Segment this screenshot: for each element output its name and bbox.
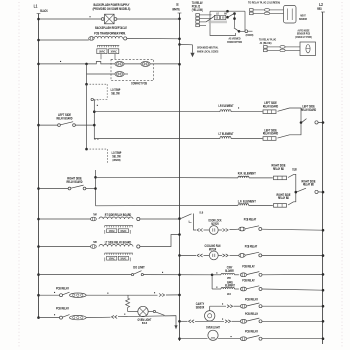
wire oven light relay rung — [37, 316, 40, 319]
element box LF — [274, 204, 287, 208]
wire backsplash rung right — [117, 18, 180, 20]
svg-text:N: N — [177, 2, 179, 7]
wire DO limit rung — [37, 273, 40, 276]
relay K5 contact conv blower — [240, 273, 246, 277]
motor M2 cooling fan — [209, 251, 218, 260]
wire lamp to relay — [218, 338, 240, 340]
svg-text:PCB RELAY: PCB RELAY — [242, 279, 255, 283]
svg-text:16VAC: 16VAC — [120, 229, 126, 233]
svg-text:SENSOR: SENSOR — [299, 17, 307, 21]
switch blade RR — [288, 174, 294, 177]
svg-text:TO RELAY PLUG J3 (GREEN): TO RELAY PLUG J3 (GREEN) — [248, 1, 280, 5]
wire LT element rung — [94, 138, 220, 140]
wire — [235, 274, 239, 276]
element LT heating coil — [220, 137, 231, 139]
wire drop to lamp DS3 — [86, 64, 88, 84]
wire through sensor bottom — [195, 320, 224, 322]
wire branch vertical — [211, 275, 213, 289]
wire RR element rung — [96, 176, 239, 179]
switch blade latch 2 — [228, 13, 234, 17]
relay K8 coil contact — [60, 316, 63, 319]
connector J3 pins — [250, 9, 254, 12]
wire to L2 — [318, 121, 323, 123]
wire latch top edge — [210, 10, 245, 12]
wire L1 drop continues — [86, 84, 88, 149]
connector J2 pins — [196, 14, 200, 17]
wire sensor rung — [210, 305, 226, 307]
svg-text:DLB: DLB — [292, 168, 297, 172]
switch blade LT — [278, 135, 290, 138]
label 16VAC T2 — [118, 229, 128, 233]
node relay junction left elements — [300, 121, 303, 124]
lamp DS4 oven light bulb — [138, 306, 148, 316]
wire to L2 bus — [318, 191, 323, 193]
connector arrows lock motor left — [197, 229, 199, 232]
label 16VAC secondary — [109, 49, 119, 54]
terminal circle — [91, 98, 93, 100]
element LF heating coil — [238, 204, 249, 206]
shaded band latch — [209, 21, 227, 24]
relay K7 coil contact — [60, 294, 63, 297]
svg-text:PCB RELAY: PCB RELAY — [245, 245, 258, 249]
element box RR — [274, 176, 287, 180]
connector arrows fan left — [197, 254, 199, 257]
switch blade latch 3 — [234, 28, 239, 32]
wire J1 leads — [267, 46, 279, 48]
relay K3 contact door lock — [239, 227, 245, 231]
svg-text:DLB: DLB — [200, 211, 204, 215]
transformer T3 primary terminal — [91, 245, 97, 249]
wire across N to branch — [143, 274, 212, 276]
svg-text:10VAC: 10VAC — [109, 229, 115, 233]
svg-text:LT ELEMENT: LT ELEMENT — [218, 132, 234, 136]
svg-text:LO: LO — [216, 12, 219, 16]
svg-text:(WARM): (WARM) — [113, 158, 121, 162]
wire dashed board edge top — [94, 99, 99, 101]
wire J2 pin leads — [199, 14, 211, 16]
wire rung under lamp — [118, 316, 176, 317]
connector arrows probe left — [189, 320, 191, 323]
wire between indicators — [124, 63, 141, 65]
svg-text:R.R. ELEMENT: R.R. ELEMENT — [238, 172, 257, 176]
secondary bracket marks T3 — [104, 258, 106, 262]
wire LF element rung — [96, 204, 239, 206]
wire collector vertical right elements — [95, 170, 97, 206]
svg-text:LR ELEMENT: LR ELEMENT — [218, 104, 234, 108]
wire T3 jog to N bus — [140, 235, 180, 247]
relay K6 contact bake — [240, 287, 246, 291]
wire LR to relay node — [290, 108, 302, 123]
wire to L2 bus — [262, 305, 323, 307]
wire mechanical link dashed — [87, 83, 108, 85]
element bake coil — [221, 288, 235, 290]
switch blade LF — [288, 202, 294, 205]
svg-text:(PROVIDED ON SOME MODELS): (PROVIDED ON SOME MODELS) — [93, 7, 131, 11]
wire RR to element box — [249, 177, 273, 179]
wire LT relay board rung — [37, 245, 40, 248]
wire — [204, 254, 210, 256]
label 16VAC T3 — [118, 256, 128, 260]
svg-text:L1: L1 — [34, 4, 38, 9]
wire to arrows — [86, 316, 110, 318]
wire to blower element — [212, 274, 221, 276]
switch blade LR — [278, 108, 290, 111]
svg-text:16VAC: 16VAC — [120, 256, 126, 260]
svg-text:DO LIMIT: DO LIMIT — [133, 265, 145, 269]
switch S3 DO limit — [131, 274, 133, 276]
wire to relay probe — [232, 320, 241, 322]
wire drop to lock motor rung — [194, 214, 197, 231]
wire N bus — [179, 13, 181, 341]
wire to L2 bus — [262, 255, 323, 257]
svg-text:BULB: BULB — [142, 321, 148, 325]
wire — [204, 229, 210, 231]
wire to L2 bus — [262, 338, 323, 340]
wire oven light rung bottom — [178, 337, 181, 340]
terminal ovals J1 — [280, 46, 285, 49]
svg-text:PCB RELAY: PCB RELAY — [56, 286, 69, 290]
tick wire labels — [54, 292, 55, 293]
wire lamp feed — [128, 311, 138, 313]
svg-text:MOTOR: MOTOR — [211, 222, 219, 226]
resistor dropping — [127, 295, 129, 298]
relay K11 contact light — [240, 337, 246, 341]
svg-text:PCB RELAY: PCB RELAY — [56, 306, 69, 310]
svg-text:L.F. ELEMENT: L.F. ELEMENT — [238, 199, 257, 203]
wire to auto mode sensor — [285, 46, 300, 48]
wire secondary leads — [100, 54, 102, 60]
relay K2 contact — [297, 188, 306, 192]
connector arrows relay rung — [159, 294, 161, 297]
svg-text:TMR: TMR — [93, 213, 97, 217]
svg-text:ES: ES — [216, 16, 218, 20]
lamp DS5 oven light — [208, 330, 218, 340]
wire latch right drop — [244, 11, 246, 31]
wire dashed linkage lo-temp — [85, 148, 88, 151]
wire to L2 bus — [262, 289, 323, 290]
svg-text:10VAC: 10VAC — [99, 50, 106, 54]
wire — [218, 254, 222, 256]
lamp DS1 indicator — [115, 61, 124, 66]
svg-text:MAX: MAX — [227, 292, 231, 296]
svg-text:LT SIDE RELAY BOARD: LT SIDE RELAY BOARD — [105, 241, 132, 245]
wire LR element rung — [94, 111, 220, 113]
node latch bottom — [238, 30, 241, 33]
svg-text:ES: ES — [222, 16, 224, 20]
wire latch out — [239, 30, 245, 32]
svg-text:RED: RED — [317, 7, 322, 11]
connector arrow down — [174, 325, 177, 329]
switch blade latch 1 — [206, 16, 215, 22]
svg-text:RELAY BOARD: RELAY BOARD — [263, 104, 279, 108]
wire sensor to rung — [209, 306, 211, 310]
wire collector vertical left elements — [93, 100, 95, 139]
latch switch box outline — [210, 11, 236, 35]
element box LR — [263, 110, 276, 114]
switch door lock feed — [181, 214, 192, 219]
lamp DS2 indicator — [141, 61, 150, 66]
compact PCB board outline — [111, 59, 154, 80]
element LR heating coil — [220, 110, 231, 112]
wire to L2 bus — [262, 229, 323, 230]
connector arrows oven light — [112, 315, 114, 318]
lamp DS3 indicator — [115, 72, 124, 77]
wire LF to relay node — [294, 192, 296, 202]
svg-text:COMPACT PCB: COMPACT PCB — [131, 81, 147, 85]
svg-text:J1 (BLUE): J1 (BLUE) — [260, 41, 272, 45]
svg-text:(OVEN LT PCB): (OVEN LT PCB) — [295, 35, 312, 39]
switch latch box contacts — [214, 15, 219, 19]
wire PCB relay coil rung — [37, 294, 40, 297]
wire right flex rung — [37, 187, 40, 190]
page border left (decorative) — [18, 2, 20, 348]
svg-text:ELEMENT: ELEMENT — [225, 284, 235, 288]
svg-text:RELAY BOARD: RELAY BOARD — [263, 132, 279, 136]
transformer T1 primary — [89, 37, 94, 41]
wire to N bus — [166, 294, 180, 296]
svg-text:HI: HI — [224, 12, 227, 16]
svg-text:WHEN LOCAL CODES: WHEN LOCAL CODES — [197, 49, 218, 53]
wire to element box — [231, 111, 263, 113]
wire dashed board edge bottom — [94, 138, 99, 140]
svg-text:OVEN LIGHT: OVEN LIGHT — [206, 325, 220, 329]
svg-text:FROM BOTTOM: FROM BOTTOM — [227, 40, 242, 44]
node junction lower — [85, 83, 88, 86]
wire latch drop — [234, 14, 236, 28]
wire left flex rung — [37, 124, 40, 127]
wire oven lamp rung from L1 — [37, 63, 40, 66]
relay K1 contact — [302, 119, 307, 123]
wire stub — [124, 73, 128, 75]
wire to right collector — [86, 188, 96, 190]
wire L1 bus — [38, 14, 40, 319]
node relay junction right elements — [295, 191, 298, 194]
svg-text:RELAY BD: RELAY BD — [273, 167, 285, 171]
wire cooling fan rung — [178, 254, 181, 257]
svg-text:RELAY BOARD: RELAY BOARD — [301, 108, 317, 112]
wire to L2 bus — [262, 320, 323, 322]
wire to collector — [75, 124, 94, 126]
wire latch out 2 — [248, 30, 253, 32]
wire lamp DS3 feed — [87, 73, 115, 75]
wire ground stub — [178, 43, 181, 46]
svg-text:SEL SW: SEL SW — [111, 91, 120, 95]
svg-text:10VAC: 10VAC — [109, 256, 115, 260]
element conv blower — [221, 273, 235, 275]
svg-text:PCB RELAY: PCB RELAY — [244, 218, 257, 222]
switch S4 door switch — [153, 310, 155, 312]
connector arrows lock motor right — [223, 229, 225, 232]
receptacle P1 backsplash — [101, 18, 104, 21]
svg-text:16VAC: 16VAC — [111, 50, 118, 54]
svg-text:MTR: MTR — [227, 276, 231, 280]
wire to relay — [230, 254, 239, 256]
svg-text:(DOOR): (DOOR) — [246, 33, 254, 37]
label 10VAC T2 — [107, 229, 117, 233]
wire L2 bus — [322, 12, 324, 344]
svg-text:RELAY BOARD: RELAY BOARD — [57, 116, 73, 120]
transformer T1 secondary — [97, 44, 119, 46]
transformer T2 primary winding — [99, 217, 133, 219]
svg-text:WHITE: WHITE — [172, 8, 180, 12]
connector arrows sensor — [227, 305, 229, 308]
element RR heating coil — [238, 176, 249, 178]
svg-text:PCB RELAY: PCB RELAY — [245, 330, 258, 334]
connector arrows probe right — [225, 320, 227, 323]
switch S1 left flex relay — [58, 124, 61, 127]
relay K9 contact sensor — [240, 304, 246, 308]
wire LF to element box — [249, 204, 273, 206]
wire probe rung from N — [178, 320, 181, 323]
page border right (decorative) — [341, 2, 343, 348]
svg-text:RELAY BD: RELAY BD — [303, 183, 315, 187]
svg-text:BACKSPLASH RECEPTACLE: BACKSPLASH RECEPTACLE — [95, 26, 127, 30]
svg-text:SENSOR: SENSOR — [196, 306, 205, 310]
wire to relay — [230, 228, 239, 230]
wire transformer primary rung left — [39, 39, 89, 41]
relay K4 contact fan — [239, 254, 245, 258]
secondary bracket marks T2 — [104, 230, 106, 234]
label 10VAC T3 — [107, 256, 117, 260]
svg-text:(YELLOW): (YELLOW) — [192, 8, 203, 12]
transformer T3 primary winding — [99, 245, 133, 247]
svg-text:BLACK: BLACK — [40, 9, 48, 13]
wire to N bus — [150, 63, 179, 65]
transformer T2 primary terminal — [91, 217, 97, 221]
wire LT to relay node — [290, 123, 302, 135]
latch linkage mark — [189, 221, 192, 223]
transformer T3 secondary — [105, 252, 133, 254]
connector J1 pins — [264, 46, 268, 49]
wire to meat sensor — [270, 9, 284, 11]
wire lamp to switch — [148, 311, 153, 313]
wire to L2 bus — [262, 273, 323, 275]
switch S2 right flex relay — [68, 187, 71, 190]
svg-text:RELAY BOARD: RELAY BOARD — [67, 180, 83, 184]
wire bake element branch — [212, 288, 221, 290]
connector arrows fan right — [223, 254, 225, 257]
wire — [218, 229, 222, 231]
transformer T2 secondary — [105, 225, 133, 227]
label 10VAC secondary — [97, 49, 107, 54]
ground chassis arrow — [190, 53, 194, 57]
wire to relay — [234, 305, 241, 307]
wire T2 to N bus — [140, 218, 180, 220]
svg-text:BLOWER: BLOWER — [225, 269, 234, 273]
node junction on lamp rung — [85, 63, 88, 66]
terminal ovals J3 — [264, 9, 269, 12]
auto mode sensor PCB — [300, 42, 316, 56]
terminal circle latch — [245, 30, 248, 33]
wire to connector — [86, 294, 157, 296]
svg-text:PCB RELAY: PCB RELAY — [242, 265, 255, 269]
sensor RT1 oven sensor — [205, 311, 215, 321]
svg-text:TMR: TMR — [93, 240, 97, 244]
svg-text:PCB RELAY: PCB RELAY — [245, 298, 258, 302]
meat sensor module — [284, 6, 297, 24]
wire RR to relay node — [294, 174, 296, 192]
wire to chassis drop — [165, 316, 176, 326]
wire J3 leads — [253, 9, 264, 11]
svg-text:RT SIDE RELAY BOARD: RT SIDE RELAY BOARD — [105, 213, 132, 217]
node latch mid — [226, 16, 229, 19]
svg-text:PCB TRANSFORMER PRIM.: PCB TRANSFORMER PRIM. — [94, 31, 126, 35]
wire transformer primary rung right — [127, 37, 180, 39]
motor M1 door lock — [209, 226, 218, 235]
wire backsplash rung left — [39, 18, 102, 20]
element box LT — [263, 137, 276, 141]
wire — [235, 288, 239, 290]
svg-text:PCB RELAY: PCB RELAY — [245, 312, 258, 316]
svg-text:RELAY BD: RELAY BD — [278, 196, 290, 200]
wire RT relay board rung — [37, 218, 40, 221]
relay K10 contact probe — [240, 319, 246, 323]
wire to element box LT — [231, 138, 263, 140]
